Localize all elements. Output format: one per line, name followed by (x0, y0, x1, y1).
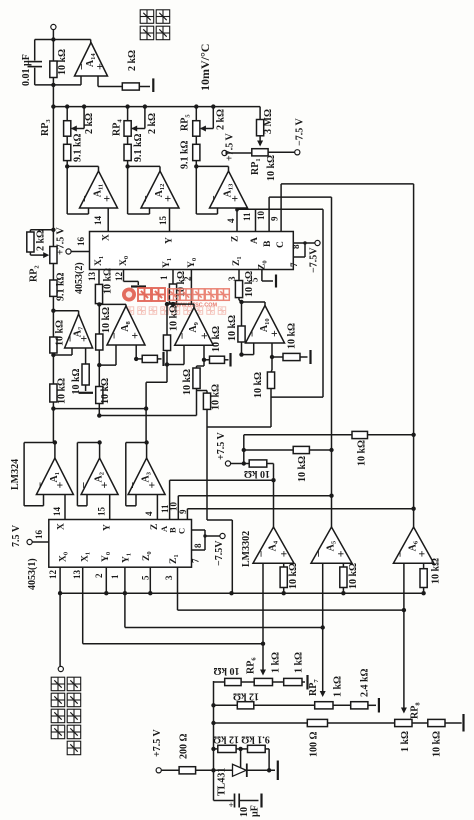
svg-text:10 kΩ: 10 kΩ (287, 323, 298, 349)
svg-text:9: 9 (178, 509, 188, 514)
svg-text:11: 11 (242, 212, 252, 221)
rail pullup +7.5 (243, 435, 245, 464)
svg-text:10 kΩ: 10 kΩ (244, 271, 255, 297)
resistor 9.1k rail (50, 280, 57, 296)
svg-text:10 kΩ: 10 kΩ (432, 731, 443, 757)
wire (267, 463, 274, 465)
wire row RP6 (214, 681, 225, 683)
wire row TL431 (214, 748, 218, 750)
wire pin 2 (105, 567, 107, 593)
rail A9 chain down (206, 409, 208, 520)
svg-text:C: C (276, 241, 286, 248)
wire (195, 136, 197, 144)
op-amp A13 (210, 171, 248, 208)
svg-text:Y: Y (165, 237, 175, 244)
A7 + wire (85, 348, 87, 364)
svg-text:−7.5 V: −7.5 V (295, 117, 306, 146)
svg-text:7: 7 (289, 262, 299, 267)
svg-text:14: 14 (52, 507, 62, 517)
ground RP8 row (462, 714, 464, 732)
wiper wire RP3 (83, 107, 85, 129)
A1 feedback wire (24, 442, 55, 444)
svg-text:10: 10 (239, 807, 250, 817)
terminal 7.5V pin 16 (27, 539, 32, 544)
svg-text:−7.5V: −7.5V (309, 247, 320, 273)
A14 inverting input wire (80, 76, 82, 85)
resistor 100 (307, 719, 327, 726)
resistor 10k A10+ (283, 353, 300, 360)
resistor 10k pin1 (169, 284, 176, 303)
A8 rail (98, 304, 100, 334)
wire A13 + to 4053(2) pin 4 (236, 208, 238, 232)
svg-text:8: 8 (291, 244, 301, 249)
wire A4 out to 4053(1) pin 11 (170, 479, 274, 481)
op-amp A8 (107, 306, 145, 345)
wire (66, 136, 68, 144)
A10 inv wire (242, 354, 254, 356)
feedback wire A11 (67, 165, 98, 167)
wire A1+ pin 14 (64, 495, 66, 520)
label: linear output (Chinese) (140, 10, 154, 23)
wire (196, 769, 233, 771)
svg-text:10: 10 (256, 211, 266, 221)
resistor 10k A10 lower (267, 372, 274, 389)
wire (227, 152, 252, 154)
svg-text:1 kΩ: 1 kΩ (400, 731, 411, 752)
bus junction (194, 104, 198, 108)
wire pullup A6 (244, 434, 414, 436)
svg-text:+: + (93, 63, 107, 70)
wire A2+ pin 15 (109, 495, 111, 520)
wire to A9 rail (207, 426, 271, 428)
ground A8 (162, 352, 164, 366)
wire bus to RP3 (66, 107, 68, 121)
signal bus to comparators (60, 592, 424, 594)
resistor 10k A4+ (280, 567, 287, 588)
arrow to RP1 wiper (259, 136, 261, 145)
wire to ground (139, 86, 150, 88)
comparator A6 (393, 527, 433, 563)
resistor 2k RP2 (27, 232, 34, 252)
svg-text:9: 9 (270, 216, 280, 221)
svg-text:+: + (97, 482, 111, 489)
TL431 ref wire (240, 749, 242, 768)
A5 inv wire (322, 563, 324, 627)
svg-text:16: 16 (34, 530, 44, 540)
bus junction (82, 104, 86, 108)
svg-text:+7.5 V: +7.5 V (225, 132, 236, 161)
svg-text:12 kΩ: 12 kΩ (213, 734, 239, 745)
svg-text:10 kΩ: 10 kΩ (103, 268, 114, 294)
wire pin 5 (149, 567, 151, 593)
op-amp A14 (75, 43, 108, 77)
wire to inverting input (195, 166, 197, 214)
svg-text:+: + (100, 195, 114, 202)
A5 + wire (342, 563, 344, 567)
A8 feedback wire (99, 303, 126, 305)
op-amp A3 (128, 458, 165, 495)
svg-text:Y: Y (103, 524, 113, 531)
bus junction (211, 104, 215, 108)
wire (161, 769, 179, 771)
wire A6 out to 4053(1) pin 9 (187, 508, 413, 510)
capacitor C1 0.01uF feedback (35, 39, 91, 41)
wire row RP8 (214, 722, 462, 724)
svg-text:2 kΩ: 2 kΩ (147, 113, 158, 134)
A9 + wire (203, 345, 205, 360)
wire pin 13 (82, 567, 84, 644)
watermark logo (122, 288, 229, 315)
A10 rail (241, 302, 243, 326)
svg-text:10 kΩ: 10 kΩ (101, 307, 112, 333)
svg-text:−: − (393, 550, 407, 557)
rail A4 output (273, 464, 275, 528)
wire (195, 161, 197, 167)
terminal +7.5V supply (156, 768, 161, 773)
node L1 (51, 406, 55, 410)
resistor 1k row RP7 (351, 702, 368, 709)
svg-text:10 kΩ: 10 kΩ (227, 315, 238, 341)
svg-text:3: 3 (164, 575, 174, 580)
resistor 2k at A14 + (122, 83, 139, 90)
A2 feedback wire (77, 442, 99, 444)
wire branch (271, 396, 323, 398)
svg-text:2: 2 (94, 573, 104, 578)
ground 10uF (260, 794, 262, 808)
svg-text:−: − (254, 550, 268, 557)
svg-text:2 kΩ: 2 kΩ (36, 230, 47, 251)
rail A6 output (413, 184, 415, 527)
svg-text:+: + (277, 550, 291, 557)
svg-text:10 kΩ: 10 kΩ (213, 665, 239, 676)
wire pin 1 (172, 270, 174, 285)
svg-text:1 kΩ: 1 kΩ (271, 652, 282, 673)
wire: output rail down to bus (52, 30, 54, 107)
IC U1 4053(1) (49, 520, 192, 568)
IC U2 4053(2) (90, 232, 294, 270)
svg-text:LM3302: LM3302 (241, 531, 252, 567)
svg-text:10 kΩ: 10 kΩ (100, 378, 111, 404)
svg-text:1: 1 (110, 574, 120, 579)
svg-text:µF: µF (250, 805, 261, 817)
terminal -7.5V (220, 533, 225, 538)
resistor 10k A6+ (420, 569, 427, 588)
svg-text:100 Ω: 100 Ω (309, 731, 320, 757)
svg-text:13: 13 (87, 272, 97, 282)
wiper wire RP5 (212, 107, 214, 129)
wire pin 2 (190, 270, 192, 305)
ground A7 (79, 392, 93, 394)
resistor 10k pin3 (235, 281, 242, 298)
trimmer RP6 (254, 678, 272, 685)
bus junction (51, 104, 55, 108)
comparator A5 (311, 527, 352, 563)
svg-text:10 kΩ: 10 kΩ (57, 49, 68, 75)
svg-text:−: − (175, 332, 189, 339)
wire to -7.5V (205, 535, 220, 537)
svg-text:3 MΩ: 3 MΩ (263, 109, 274, 134)
op-amp A11 (80, 171, 118, 208)
svg-text:16: 16 (76, 237, 86, 247)
resistor 10k pin13 (95, 284, 102, 303)
wire pin 5 to ground (261, 270, 263, 282)
left rail wire (52, 107, 54, 443)
resistor 10k A9 chain2 (203, 393, 210, 409)
wire A5 out to 4053(1) pin 10 (178, 495, 331, 497)
wire pin 11 (169, 480, 171, 519)
terminal +7.5V pin16 (66, 249, 71, 254)
wire pin 16 (32, 541, 49, 543)
wire pin 12 to input terminal (59, 567, 61, 666)
wire 4053(2) pin 9 (280, 184, 282, 232)
svg-text:7.5 V: 7.5 V (11, 524, 22, 547)
ground A14 (152, 78, 154, 92)
svg-text:−: − (126, 482, 140, 489)
svg-text:12 kΩ: 12 kΩ (233, 691, 259, 702)
wire (231, 463, 250, 465)
trimmer RP8 (395, 719, 412, 726)
resistor 1k row RP6 (284, 678, 302, 685)
wire to 2k (30, 229, 53, 231)
A6 + wire (423, 563, 425, 569)
resistor 10k A9 lower (193, 368, 200, 389)
svg-text:+: + (415, 550, 429, 557)
resistor 10k pullup A6 (352, 431, 368, 438)
svg-text:10 kΩ: 10 kΩ (348, 563, 359, 589)
svg-text:+: + (128, 332, 142, 339)
svg-text:+: + (228, 195, 242, 202)
rail A13 node to A10 chain (322, 209, 324, 397)
node pin1 resistor (171, 302, 175, 306)
wire down (270, 389, 272, 428)
A6 inv wire (403, 563, 405, 610)
svg-text:B: B (263, 240, 273, 247)
svg-text:+: + (267, 330, 281, 337)
wire (66, 161, 68, 167)
svg-text:TL431: TL431 (217, 768, 228, 796)
svg-text:10 kΩ: 10 kΩ (288, 563, 299, 589)
terminal +7.5V pullups (225, 461, 230, 466)
resistor 10k A10 fb (238, 326, 245, 342)
ground TL431 (277, 761, 279, 781)
wire to ground (157, 358, 161, 360)
terminal thermocouple input (58, 666, 63, 671)
wire L2 (99, 415, 196, 417)
svg-text:2 kΩ: 2 kΩ (84, 113, 95, 134)
A9 feedback wire (167, 303, 194, 305)
A3 output stub (146, 443, 148, 459)
ground pin 12 (131, 285, 146, 287)
trimmer RP5 (193, 121, 200, 137)
wire (29, 252, 31, 255)
resistor R 10k feedback A14 (50, 61, 57, 78)
resistor 10k A5+ (340, 567, 347, 588)
op-amp A9 (175, 308, 214, 346)
wire to inverting input (66, 166, 68, 214)
svg-text:LM324: LM324 (10, 459, 21, 490)
bus junction (143, 104, 147, 108)
resistor 10k A9 fb (163, 335, 170, 351)
resistor 10k rail (50, 337, 57, 353)
wire to ground (300, 356, 308, 358)
svg-text:−: − (207, 195, 221, 202)
svg-text:10 kΩ: 10 kΩ (182, 369, 193, 395)
node RP2 top (51, 228, 55, 232)
node L2 (97, 413, 101, 417)
bus junction (65, 104, 69, 108)
node A7 feedback (51, 309, 55, 313)
wire row RP7 (214, 704, 238, 706)
svg-text:2.4 kΩ: 2.4 kΩ (360, 668, 371, 697)
wire to ground (302, 681, 305, 683)
wire to 4053(2) pin 11 (255, 210, 257, 232)
wire bus to RP5 (195, 107, 197, 121)
terminal -7.5V (315, 240, 320, 245)
wire to A4 inv (83, 643, 263, 645)
svg-text:A: A (250, 237, 260, 244)
svg-text:10 kΩ: 10 kΩ (169, 305, 180, 331)
wire down (271, 357, 273, 370)
svg-text:1: 1 (159, 275, 169, 280)
svg-text:+: + (53, 482, 67, 489)
svg-text:5: 5 (141, 575, 151, 580)
resistor 12k ref (218, 745, 236, 752)
voltage reference TL431 (233, 764, 247, 776)
svg-text:+: + (161, 195, 175, 202)
wire pin 3 (177, 567, 179, 610)
svg-text:+: + (145, 482, 159, 489)
wire jog (197, 390, 208, 392)
capacitor 10uF (213, 770, 215, 800)
wire L1 (53, 408, 146, 410)
svg-text:10 kΩ: 10 kΩ (266, 155, 277, 181)
A10 feedback wire (242, 301, 266, 303)
wire pin 1 (124, 567, 126, 627)
resistor 12k (237, 702, 254, 709)
reference rail (213, 681, 215, 770)
svg-text:9.1 kΩ: 9.1 kΩ (241, 734, 270, 745)
svg-text:−: − (63, 335, 77, 342)
wire to rail A6 (281, 183, 414, 185)
ground RP6 row (306, 675, 308, 690)
svg-text:15: 15 (97, 507, 107, 517)
svg-text:−7.5V: −7.5V (214, 540, 225, 566)
svg-text:14: 14 (93, 216, 103, 226)
wire A3+ pin 4 (156, 495, 158, 520)
svg-text:10 kΩ: 10 kΩ (244, 468, 270, 479)
svg-text:1 kΩ: 1 kΩ (333, 676, 344, 697)
svg-text:12: 12 (114, 272, 124, 282)
pin 7 stub (192, 549, 206, 551)
A9 inv wire (167, 364, 184, 366)
wire to ground (247, 769, 275, 771)
trimmer RP3 (64, 121, 71, 137)
A14 non-inv input wire (97, 76, 99, 87)
svg-text:15: 15 (158, 216, 168, 226)
A9 rail to A3 (146, 381, 167, 383)
svg-text:2 kΩ: 2 kΩ (216, 109, 227, 130)
svg-text:10 kΩ: 10 kΩ (297, 456, 308, 482)
ground pin 5 (275, 275, 277, 288)
wire pin 16 (71, 251, 89, 253)
wire to ground (225, 359, 229, 361)
bus wire y=106.6 (53, 106, 260, 108)
resistor 10k rail lower (50, 384, 57, 402)
svg-text:+: + (334, 550, 348, 557)
pin 7 stub (293, 256, 305, 258)
node feedback bottom (51, 83, 55, 87)
A9 rail (166, 304, 168, 335)
svg-text:10 kΩ: 10 kΩ (253, 372, 264, 398)
svg-text:10 kΩ: 10 kΩ (211, 326, 222, 352)
node A7 inv (51, 353, 55, 357)
bus junction (125, 104, 129, 108)
wire (127, 161, 129, 167)
wire 4053(2) pin 10 (268, 197, 270, 231)
svg-text:12: 12 (48, 570, 58, 580)
wire to -7.5V terminal (305, 242, 315, 244)
wire to L2 (196, 389, 198, 416)
A7 feedback wire (53, 310, 78, 312)
wire to A6 inv (178, 609, 404, 611)
wire to ground (368, 704, 376, 706)
svg-text:+7.5 V: +7.5 V (216, 431, 227, 460)
svg-text:9.1 kΩ: 9.1 kΩ (56, 272, 67, 301)
A4 + wire (283, 563, 285, 567)
ground RP7 row (378, 698, 380, 713)
svg-text:9.1 kΩ: 9.1 kΩ (73, 133, 84, 162)
svg-text:X: X (57, 523, 67, 530)
svg-text:13: 13 (72, 570, 82, 580)
svg-text:−: − (245, 330, 259, 337)
trimmer RP2 (50, 247, 57, 264)
comparator A4 (253, 527, 294, 563)
svg-text:2 kΩ: 2 kΩ (127, 50, 138, 71)
op-amp A10 (246, 306, 285, 344)
A10 + wire (271, 343, 273, 357)
resistor 10k A8 lower (96, 387, 103, 404)
svg-text:−: − (78, 195, 92, 202)
trimmer RP1 (252, 149, 268, 156)
svg-text:4053(2): 4053(2) (74, 262, 85, 294)
wire pin 3 (238, 270, 240, 281)
op-amp A2 (81, 458, 118, 495)
wire pin 12 to ground (123, 270, 125, 282)
terminal -7.5V (295, 150, 300, 155)
ground A10 (309, 350, 311, 364)
svg-text:−: − (77, 482, 91, 489)
wire pin 13 (98, 270, 100, 285)
wire A12 + to 4053(2) pin 15 (169, 208, 171, 232)
node A10 inv (239, 352, 243, 356)
wire down (203, 360, 205, 366)
svg-text:5: 5 (250, 277, 260, 282)
svg-text:200 Ω: 200 Ω (179, 733, 190, 759)
wire bus to RP4 (127, 107, 129, 121)
svg-text:10 kΩ: 10 kΩ (211, 384, 222, 410)
pin 8 stub (293, 242, 305, 244)
svg-text:C: C (177, 528, 187, 534)
wire pin 9 (186, 509, 188, 520)
A8 inv wire (99, 364, 116, 366)
resistor 10k pullup A4 (249, 460, 267, 467)
resistor 9.1k stage 4 (124, 144, 131, 160)
svg-text:7: 7 (191, 558, 201, 563)
resistor 9.1k stage 3 (64, 144, 71, 160)
svg-text:4: 4 (226, 218, 236, 223)
resistor 10k A8+ (142, 355, 157, 362)
wiper wire RP4 (144, 107, 146, 129)
